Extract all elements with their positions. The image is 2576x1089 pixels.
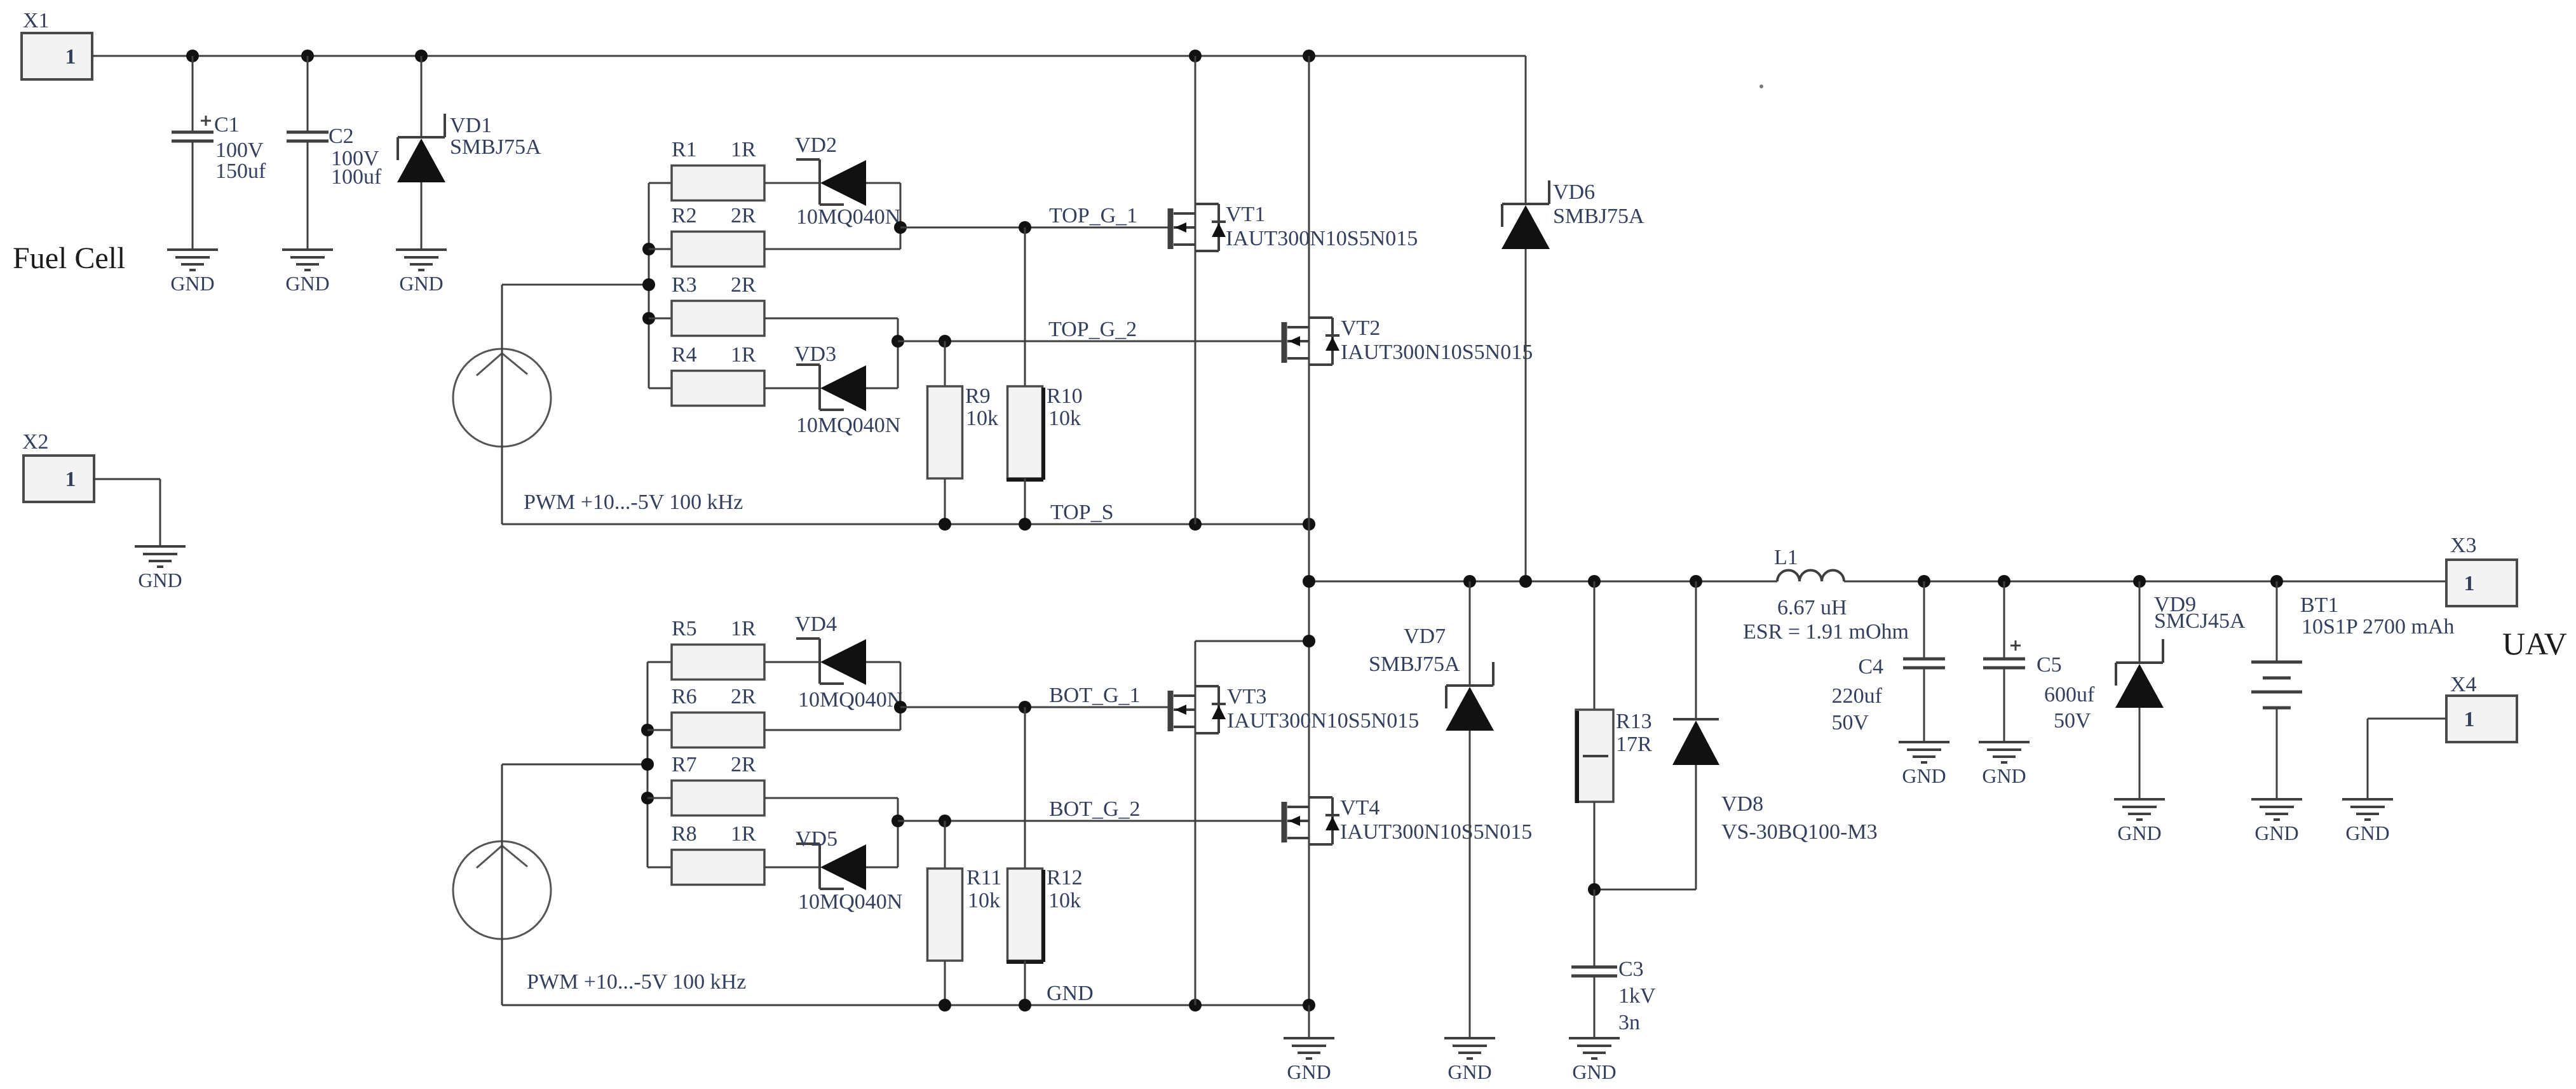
svg-text:TOP_S: TOP_S: [1050, 501, 1114, 524]
svg-text:C1: C1: [214, 113, 240, 137]
ground (C4): [1899, 742, 1949, 787]
svg-text:VD6: VD6: [1553, 180, 1595, 204]
svg-text:50V: 50V: [2054, 709, 2091, 733]
svg-text:1kV: 1kV: [1618, 984, 1656, 1008]
label Fuel Cell: [13, 241, 125, 275]
wire BOT_G_1: [900, 707, 1168, 708]
svg-text:R10: R10: [1047, 384, 1083, 408]
svg-text:X1: X1: [23, 9, 50, 32]
svg-text:GND: GND: [2345, 822, 2389, 844]
diode VD1: [397, 56, 541, 250]
ground (C3): [1569, 1038, 1620, 1083]
wire PWM2 top: [502, 764, 647, 766]
wire VT2 column: [1308, 56, 1310, 1005]
junction mid bus / VT2 column: [1303, 575, 1315, 588]
svg-text:17R: 17R: [1616, 733, 1652, 756]
connector X1: [22, 9, 92, 79]
junction gate bus / PWM1: [642, 278, 655, 291]
resistor R12: [1007, 707, 1083, 1005]
transistor VT4: [1284, 796, 1532, 844]
svg-text:IAUT300N10S5N015: IAUT300N10S5N015: [1226, 227, 1418, 250]
wire node TOP_G_1 riser: [900, 183, 902, 249]
junction TOP_G_1 / R10: [1019, 221, 1031, 234]
svg-text:50V: 50V: [1831, 711, 1869, 734]
label BOT_G_1: [1049, 684, 1141, 707]
svg-text:SMCJ45A: SMCJ45A: [2154, 609, 2246, 633]
resistor R11: [928, 821, 1002, 1005]
junction gate bus2 / R7: [641, 792, 654, 804]
diode VD5: [796, 827, 902, 914]
resistor R4: [649, 343, 820, 406]
svg-text:L1: L1: [1774, 546, 1798, 569]
wire VT1 column: [1195, 56, 1196, 524]
svg-text:UAV: UAV: [2502, 626, 2567, 661]
wire top bus: [92, 55, 1526, 57]
svg-text:100V: 100V: [215, 139, 264, 162]
current source PWM2: [453, 841, 551, 939]
svg-text:10MQ040N: 10MQ040N: [798, 688, 902, 712]
svg-text:1R: 1R: [731, 343, 756, 367]
wire gate bus top: [648, 183, 650, 388]
resistor R13: [1576, 581, 1652, 889]
junction top bus / VD1: [415, 50, 428, 62]
svg-text:10k: 10k: [968, 889, 1000, 912]
svg-text:GND: GND: [1047, 982, 1094, 1005]
svg-text:2R: 2R: [731, 685, 756, 708]
wire GND bus: [502, 1004, 1309, 1006]
svg-text:150uf: 150uf: [215, 159, 266, 183]
svg-text:C5: C5: [2037, 653, 2062, 677]
svg-text:R5: R5: [672, 617, 697, 640]
junction BOT_G_1 tap: [894, 701, 907, 714]
junction mid bus / VD6: [1519, 575, 1532, 588]
wire PWM1 top: [502, 284, 649, 286]
current source PWM1: [453, 349, 551, 447]
wire VT4 ground stub: [1308, 1005, 1310, 1038]
resistor R8: [647, 822, 820, 885]
ground (VD7): [1444, 1038, 1495, 1083]
svg-text:R8: R8: [672, 822, 697, 846]
svg-text:GND: GND: [1572, 1060, 1616, 1083]
junction TOP_G_2 / R9: [939, 335, 951, 348]
svg-text:VT2: VT2: [1341, 316, 1380, 340]
svg-text:GND: GND: [138, 569, 182, 592]
svg-text:R6: R6: [672, 685, 697, 708]
svg-text:1: 1: [2464, 572, 2475, 595]
svg-text:VD3: VD3: [794, 342, 836, 366]
wire node BOT_G_2 riser: [897, 798, 899, 867]
svg-text:10k: 10k: [966, 407, 998, 430]
connector X2: [22, 430, 94, 502]
svg-text:C3: C3: [1618, 957, 1644, 981]
resistor R3: [649, 273, 898, 336]
junction top bus / VT1 drain: [1189, 50, 1202, 62]
wire node TOP_G_2 riser: [897, 318, 899, 388]
svg-text:VD1: VD1: [450, 114, 492, 137]
svg-text:GND: GND: [399, 272, 443, 295]
junction gate bus2 / R6: [641, 724, 654, 736]
svg-text:100uf: 100uf: [331, 165, 382, 189]
junction TOP_S / VT1 source: [1189, 518, 1202, 531]
svg-text:C2: C2: [329, 125, 354, 148]
wire TOP_G_2: [898, 341, 1282, 342]
junction GND bus / R12: [1019, 999, 1031, 1011]
svg-text:220uf: 220uf: [1832, 684, 1883, 708]
junction top bus / C1: [186, 50, 199, 62]
svg-text:GND: GND: [1982, 764, 2026, 787]
svg-text:GND: GND: [170, 272, 214, 295]
junction gate bus / R2: [642, 243, 655, 255]
diode VD3: [794, 342, 900, 437]
svg-text:10S1P 2700 mAh: 10S1P 2700 mAh: [2301, 615, 2455, 639]
transistor VT2: [1284, 316, 1533, 365]
transistor VT3: [1170, 685, 1419, 733]
svg-text:VD8: VD8: [1721, 792, 1763, 816]
wire mid bus left: [1309, 581, 1777, 583]
svg-text:R11: R11: [966, 866, 1001, 889]
diode VD4: [795, 612, 902, 712]
inductor L1: [1743, 546, 1909, 644]
wire TOP_S: [502, 524, 1309, 525]
svg-text:BT1: BT1: [2300, 593, 2338, 617]
label TOP_S: [1050, 501, 1114, 524]
ground (X4): [2342, 799, 2393, 844]
capacitor C2: [287, 56, 382, 250]
svg-text:GND: GND: [2117, 822, 2161, 844]
wire gate bus bottom: [647, 662, 649, 867]
diode VD9: [2115, 581, 2246, 799]
svg-text:1: 1: [2464, 708, 2475, 731]
wire X4 to ground: [2368, 719, 2446, 799]
junction mid bus / C5: [1998, 575, 2010, 588]
junction TOP_S / VT2 column: [1303, 518, 1315, 531]
label PWM2: [527, 970, 746, 994]
junction BOT_G_2 / R11: [939, 815, 951, 827]
capacitor C5: [1983, 581, 2095, 742]
junction TOP_G_1 tap: [894, 221, 907, 234]
diode VD2: [795, 133, 900, 229]
svg-text:GND: GND: [2254, 822, 2298, 844]
junction top bus / C2: [301, 50, 314, 62]
resistor R9: [928, 341, 999, 524]
svg-text:GND: GND: [1287, 1060, 1331, 1083]
svg-text:IAUT300N10S5N015: IAUT300N10S5N015: [1340, 820, 1532, 844]
svg-text:X2: X2: [22, 430, 49, 454]
svg-text:SMBJ75A: SMBJ75A: [1369, 653, 1460, 676]
svg-text:1R: 1R: [731, 138, 756, 161]
svg-text:SMBJ75A: SMBJ75A: [1553, 205, 1644, 228]
ground (C5): [1979, 742, 2030, 787]
svg-text:BOT_G_2: BOT_G_2: [1049, 797, 1141, 821]
svg-text:X3: X3: [2450, 534, 2477, 557]
junction jog / VT2 column: [1303, 635, 1315, 647]
svg-text:1R: 1R: [731, 617, 756, 640]
svg-text:ESR = 1.91 mOhm: ESR = 1.91 mOhm: [1743, 620, 1909, 644]
svg-text:PWM +10...-5V 100 kHz: PWM +10...-5V 100 kHz: [524, 490, 743, 514]
transistor VT1: [1170, 203, 1418, 251]
junction TOP_S / R9: [939, 518, 951, 531]
connector X3: [2446, 534, 2517, 606]
svg-text:C4: C4: [1858, 655, 1883, 679]
wire PWM1 shaft: [501, 285, 503, 524]
junction gate bus / R3: [642, 312, 655, 325]
svg-text:R2: R2: [672, 204, 697, 227]
svg-text:VT1: VT1: [1226, 203, 1265, 226]
svg-text:R12: R12: [1047, 866, 1083, 889]
svg-text:600uf: 600uf: [2044, 683, 2095, 707]
svg-text:GND: GND: [1902, 764, 1946, 787]
svg-text:R9: R9: [965, 384, 991, 408]
diode VD8: [1672, 581, 1878, 889]
wire X2 to ground: [93, 479, 160, 546]
svg-text:R3: R3: [672, 273, 697, 297]
label PWM1: [524, 490, 743, 514]
svg-text:10k: 10k: [1048, 889, 1081, 912]
svg-text:1R: 1R: [731, 822, 756, 846]
label BOT_G_2: [1049, 797, 1141, 821]
wire node BOT_G_1 riser: [900, 662, 902, 730]
junction TOP_S / R10: [1019, 518, 1031, 531]
resistor R1: [649, 138, 820, 201]
svg-text:IAUT300N10S5N015: IAUT300N10S5N015: [1341, 341, 1533, 364]
wire snubber node: [1594, 889, 1696, 891]
junction GND bus / R11: [939, 999, 951, 1011]
label UAV: [2502, 626, 2567, 661]
svg-text:X4: X4: [2450, 673, 2477, 696]
svg-text:1: 1: [65, 45, 76, 69]
svg-text:R13: R13: [1616, 710, 1652, 733]
resistor R5: [647, 617, 820, 680]
wire BOT_G_2: [898, 820, 1282, 822]
junction BOT_G_2 tap: [891, 815, 904, 827]
junction top bus / VT2 drain: [1303, 50, 1315, 62]
wire TOP_G_1: [900, 227, 1168, 229]
junction mid bus / R13: [1588, 575, 1601, 588]
capacitor C3: [1571, 889, 1656, 1038]
svg-text:R1: R1: [672, 138, 697, 161]
battery BT1: [2251, 581, 2455, 799]
junction GND bus / VT4 source: [1303, 999, 1315, 1011]
svg-text:1: 1: [65, 468, 76, 491]
svg-text:PWM +10...-5V 100 kHz: PWM +10...-5V 100 kHz: [527, 970, 746, 994]
svg-text:10MQ040N: 10MQ040N: [798, 890, 902, 914]
resistor R6: [647, 685, 900, 748]
svg-text:10MQ040N: 10MQ040N: [796, 414, 900, 437]
ground (BT1): [2251, 799, 2302, 844]
diode VD6: [1502, 56, 1644, 581]
junction TOP_G_2 tap: [891, 335, 904, 348]
svg-text:VD7: VD7: [1404, 625, 1446, 648]
resistor R2: [649, 204, 900, 267]
svg-text:R4: R4: [672, 343, 697, 367]
svg-text:VD5: VD5: [796, 827, 837, 851]
resistor R10: [1007, 227, 1083, 524]
capacitor C1: [172, 56, 266, 250]
wire PWM2 shaft: [501, 764, 503, 1005]
svg-text:TOP_G_1: TOP_G_1: [1049, 204, 1137, 227]
svg-text:VT4: VT4: [1340, 796, 1380, 820]
svg-text:GND: GND: [1447, 1060, 1491, 1083]
svg-text:Fuel Cell: Fuel Cell: [13, 241, 125, 275]
ground (VD9): [2114, 799, 2165, 844]
junction mid bus / C4: [1918, 575, 1930, 588]
junction mid bus / BT1: [2270, 575, 2283, 588]
svg-text:10MQ040N: 10MQ040N: [796, 205, 900, 229]
ground (X2): [135, 546, 186, 592]
junction GND bus / VT3 source: [1189, 999, 1202, 1011]
svg-text:GND: GND: [285, 272, 329, 295]
junction snubber node / R13: [1588, 883, 1601, 896]
svg-text:10k: 10k: [1048, 407, 1081, 430]
resistor R7: [647, 753, 898, 816]
speck: [1759, 85, 1763, 88]
ground (C2): [282, 250, 333, 295]
junction mid bus / VD9: [2133, 575, 2146, 588]
label GND net: [1047, 982, 1094, 1005]
wire VT3 drain jog: [1195, 641, 1309, 1005]
ground (VT4): [1284, 1038, 1334, 1083]
label TOP_G_2: [1048, 318, 1137, 341]
diode VD7: [1369, 581, 1494, 1038]
label TOP_G_1: [1049, 204, 1137, 227]
svg-text:6.67 uH: 6.67 uH: [1777, 596, 1847, 619]
svg-text:3n: 3n: [1618, 1011, 1640, 1034]
svg-text:2R: 2R: [731, 204, 756, 227]
ground (C1): [167, 250, 218, 295]
svg-text:TOP_G_2: TOP_G_2: [1048, 318, 1137, 341]
svg-text:VT3: VT3: [1227, 685, 1266, 708]
svg-text:VD4: VD4: [795, 612, 837, 636]
junction BOT_G_1 / R12: [1019, 701, 1031, 714]
capacitor C4: [1831, 581, 1945, 742]
junction mid bus / VD8: [1690, 575, 1702, 588]
svg-text:VS-30BQ100-M3: VS-30BQ100-M3: [1721, 820, 1878, 844]
wire mid bus right: [1844, 581, 2446, 583]
svg-text:R7: R7: [672, 753, 697, 776]
svg-text:2R: 2R: [731, 753, 756, 776]
ground (VD1): [396, 250, 447, 295]
connector X4: [2446, 673, 2517, 742]
junction gate bus2 / PWM2: [641, 758, 654, 771]
svg-text:SMBJ75A: SMBJ75A: [450, 135, 541, 159]
svg-text:IAUT300N10S5N015: IAUT300N10S5N015: [1227, 709, 1419, 733]
svg-text:BOT_G_1: BOT_G_1: [1049, 684, 1141, 707]
svg-text:2R: 2R: [731, 273, 756, 297]
junction mid bus / VD7: [1463, 575, 1476, 588]
svg-text:VD2: VD2: [795, 133, 837, 157]
